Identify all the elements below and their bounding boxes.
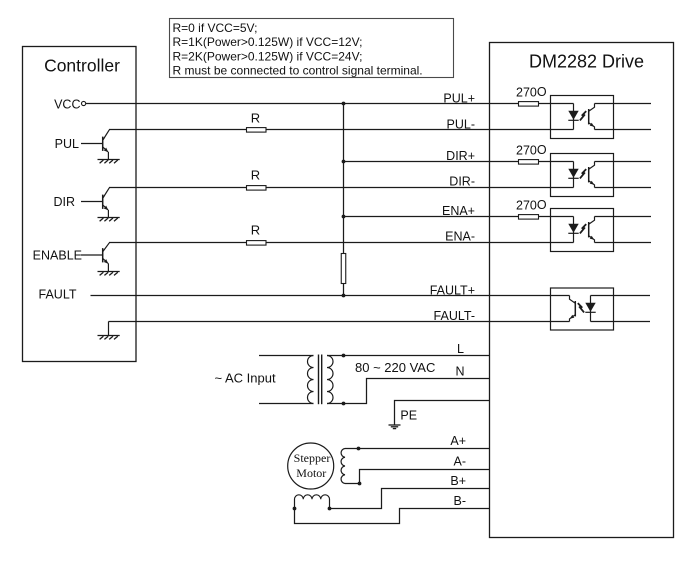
junction node secondary bottom <box>342 402 346 406</box>
svg-text:PUL-: PUL- <box>447 118 475 132</box>
DM2282 Drive box <box>490 43 674 538</box>
svg-text:ENA-: ENA- <box>445 230 475 244</box>
resistor 270 (PUL+) <box>519 102 539 107</box>
wire opto U1 right emitter out <box>595 129 652 131</box>
junction node B coil right <box>328 507 332 511</box>
light arrow <box>580 224 586 233</box>
svg-text:Stepper: Stepper <box>294 451 331 465</box>
transformer T1 primary coil <box>308 356 314 404</box>
junction node A+ <box>357 447 361 451</box>
resistor R (PUL-) <box>247 128 267 133</box>
wire FAULT- drop to ground <box>108 322 110 336</box>
svg-text:R: R <box>251 168 260 183</box>
svg-text:PUL+: PUL+ <box>443 92 475 106</box>
wire DIR+ line <box>344 161 574 163</box>
wire L line <box>327 355 490 357</box>
note box <box>170 19 454 78</box>
svg-text:VCC: VCC <box>54 97 80 111</box>
wire opto U2 right collector out <box>595 161 652 163</box>
PE earth ground <box>389 425 401 429</box>
Controller box <box>23 47 137 362</box>
junction node B coil left <box>293 507 297 511</box>
resistor 270 (ENA+) <box>519 215 539 220</box>
LED anode branch <box>573 104 575 130</box>
wire FAULT+ line <box>91 295 570 297</box>
wire opto U1 right collector out <box>595 103 652 105</box>
wire AC primary top <box>259 355 314 357</box>
LED anode branch <box>573 162 575 188</box>
svg-text:FAULT: FAULT <box>39 288 77 302</box>
wire B+ line <box>330 489 490 509</box>
svg-text:DIR: DIR <box>53 195 75 209</box>
LED cathode bar <box>585 311 595 313</box>
LED cathode bar <box>568 119 578 121</box>
junction node FAULT+ <box>342 294 346 298</box>
wire opto U3 right emitter out <box>595 242 652 244</box>
svg-text:A-: A- <box>454 455 467 469</box>
motor phase B coil <box>295 495 330 509</box>
light arrow <box>580 111 586 120</box>
svg-text:R: R <box>251 223 260 238</box>
LED anode branch <box>573 217 575 243</box>
svg-text:Controller: Controller <box>44 55 120 75</box>
wire opto U3 right collector out <box>595 216 652 218</box>
LED triangle <box>568 111 578 120</box>
svg-text:R must be connected to control: R must be connected to control signal te… <box>173 64 423 78</box>
transistor Q3 (ENABLE) <box>81 243 109 272</box>
svg-text:R=0 if VCC=5V;: R=0 if VCC=5V; <box>173 21 258 35</box>
motor phase A coil <box>341 449 345 484</box>
junction node L <box>342 354 346 358</box>
wire FAULT- line <box>109 321 570 323</box>
note text <box>173 21 423 78</box>
ground for Q2 <box>98 218 120 222</box>
svg-text:R=1K(Power>0.125W) if VCC=12V;: R=1K(Power>0.125W) if VCC=12V; <box>173 35 363 49</box>
svg-text:270O: 270O <box>516 85 547 100</box>
svg-text:PE: PE <box>400 408 417 422</box>
svg-text:80 ~ 220 VAC: 80 ~ 220 VAC <box>355 360 435 375</box>
wire opto U4 right anode out <box>591 295 651 297</box>
svg-text:PUL: PUL <box>55 137 79 151</box>
junction node DIR+ <box>342 160 346 164</box>
light arrow <box>578 303 584 312</box>
svg-text:FAULT-: FAULT- <box>434 309 475 323</box>
svg-text:DM2282 Drive: DM2282 Drive <box>529 52 644 72</box>
wire PE line <box>395 401 490 425</box>
transistor Q2 (DIR) <box>81 188 109 218</box>
phototransistor <box>589 104 595 130</box>
ground for Q1 <box>98 160 120 164</box>
svg-text:DIR-: DIR- <box>449 175 475 189</box>
svg-text:R: R <box>251 110 260 125</box>
wire ENA+ line <box>344 216 574 218</box>
svg-text:ENA+: ENA+ <box>442 204 475 218</box>
terminal VCC open circle <box>82 101 86 105</box>
svg-text:270O: 270O <box>516 143 547 158</box>
svg-text:L: L <box>457 342 464 356</box>
phototransistor <box>589 217 595 243</box>
ground for Q3 <box>98 272 120 276</box>
svg-text:B+: B+ <box>450 474 466 488</box>
transformer T1 secondary coil <box>327 356 333 404</box>
svg-text:Motor: Motor <box>296 466 326 480</box>
LED triangle <box>585 303 595 312</box>
wire PUL- line <box>109 129 574 131</box>
wire A+ line <box>345 448 490 450</box>
svg-text:A+: A+ <box>450 434 466 448</box>
transformer core <box>319 355 322 405</box>
svg-text:~ AC Input: ~ AC Input <box>215 370 276 385</box>
LED triangle <box>568 169 578 178</box>
transistor Q1 (PUL) <box>81 130 109 160</box>
svg-text:B-: B- <box>454 494 467 508</box>
stepper motor circle <box>288 443 334 489</box>
wire VCC / PUL+ line <box>86 103 574 105</box>
optocoupler U4 (FAULT, mirrored) <box>551 288 614 330</box>
ground for FAULT- <box>98 336 120 340</box>
wire secondary bottom to N riser <box>327 379 490 404</box>
wire opto U2 right emitter out <box>595 187 652 189</box>
optocoupler U3 (ENA) <box>551 209 614 252</box>
light arrow <box>580 169 586 178</box>
junction node A- coil <box>358 482 362 486</box>
svg-text:N: N <box>455 365 464 379</box>
wire ENA- line <box>109 242 574 244</box>
junction node VCC/bus <box>342 102 346 106</box>
wire A- line <box>345 470 490 484</box>
resistor R (ENA-) <box>247 241 267 246</box>
phototransistor <box>570 296 576 322</box>
LED triangle <box>568 224 578 233</box>
optocoupler U1 (PUL) <box>551 96 614 139</box>
wire VCC bus vertical <box>343 104 345 296</box>
LED anode branch <box>590 296 592 322</box>
resistor on bus (vertical) <box>341 254 346 284</box>
LED cathode bar <box>568 232 578 234</box>
resistor 270 (DIR+) <box>519 160 539 165</box>
resistor R (DIR-) <box>247 186 267 191</box>
svg-text:R=2K(Power>0.125W) if VCC=24V;: R=2K(Power>0.125W) if VCC=24V; <box>173 50 363 64</box>
junction node ENA+ <box>342 215 346 219</box>
phototransistor <box>589 162 595 188</box>
wire opto U4 right cathode out <box>591 321 651 323</box>
wire AC primary bottom <box>259 403 314 405</box>
optocoupler U2 (DIR) <box>551 154 614 197</box>
svg-text:ENABLE: ENABLE <box>33 248 82 262</box>
wire B- return and line <box>295 509 490 524</box>
svg-text:270O: 270O <box>516 198 547 213</box>
svg-text:DIR+: DIR+ <box>446 149 475 163</box>
LED cathode bar <box>568 177 578 179</box>
svg-text:FAULT+: FAULT+ <box>430 284 475 298</box>
wire DIR- line <box>109 187 574 189</box>
